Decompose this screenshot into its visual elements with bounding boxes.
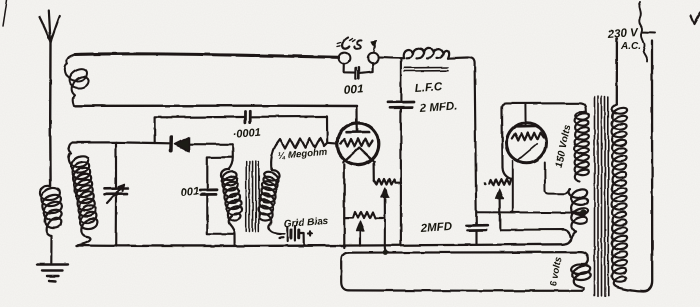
filament winding bottom lead (573, 232, 577, 237)
low frequency choke LFC (404, 48, 475, 71)
T1 secondary (258, 170, 280, 225)
V1 plate (347, 131, 370, 134)
svg-text:230 V: 230 V (606, 27, 639, 41)
power transformer T2 core (595, 96, 609, 296)
filter riser after LFC with 2MFD cap (467, 64, 487, 245)
R2 wiper arrow (381, 188, 389, 219)
junction dot rail to six volt loop (383, 250, 388, 255)
grid bypass riser (155, 117, 244, 143)
rheostat R3 (344, 212, 385, 219)
bottom return rail (77, 237, 573, 247)
svg-text:·0001: ·0001 (232, 127, 261, 141)
filament lower wire w2a (500, 230, 571, 237)
V1 grid zigzag (341, 139, 373, 147)
riser to hum rheostat R4 (502, 108, 511, 179)
T2 primary winding (612, 105, 627, 289)
T1 core (246, 161, 259, 232)
six volt loop (341, 252, 590, 291)
T1 secondary top lead to grid resistor (271, 145, 276, 170)
scan artifact top right (691, 13, 700, 24)
rheostat R2 (374, 179, 401, 185)
V1 filament leg right (373, 163, 375, 181)
variable capacitor C1 (104, 142, 128, 246)
svg-text:L.F.C: L.F.C (414, 81, 443, 95)
svg-text:001: 001 (343, 82, 364, 97)
svg-text:001: 001 (180, 185, 199, 199)
capacitor C2 plates (356, 67, 359, 78)
AC line left (616, 39, 618, 105)
T1 secondary bottom lead (269, 225, 284, 234)
triode V1 envelope (337, 123, 379, 165)
R4 wiper arrow (496, 189, 504, 230)
wire LS terminal to LFC (378, 56, 404, 59)
T2 rectifier filament winding (569, 189, 588, 231)
HV plate wire (502, 103, 586, 112)
V1 plate lead (356, 123, 358, 132)
antenna (40, 11, 60, 186)
wire R1 to grid (327, 142, 337, 145)
AC cord squiggle (639, 2, 655, 62)
capacitor C3 .0001 plates (245, 111, 250, 123)
capacitor C4 .001 branch (200, 157, 233, 234)
wire C3 to grid corner (252, 116, 328, 142)
V1 filament (343, 148, 375, 163)
T2 HV secondary winding (574, 112, 589, 181)
V2 plate (517, 125, 537, 128)
ground (38, 265, 69, 282)
V2 filament leg right (545, 163, 570, 194)
top tickler loop coil L3 (65, 54, 357, 123)
wire antenna coil to ground (50, 236, 52, 263)
scan artifact top left (3, 0, 7, 26)
svg-text:A.C.: A.C. (620, 41, 641, 52)
wire down to AF transformer primary (229, 144, 233, 169)
R4 terminal dot (483, 182, 486, 185)
B plus riser with filter cap (388, 58, 414, 245)
AF transformer T1 primary (220, 169, 242, 224)
antenna coupling coil L1 (40, 186, 62, 236)
T1 primary bottom lead (230, 225, 235, 246)
center tap junction dot (580, 210, 587, 217)
V2 filament leg left (512, 161, 514, 211)
rectifier V2 envelope (507, 123, 547, 163)
loud speaker terminal left (339, 53, 350, 64)
R3 wiper arrow (356, 222, 364, 246)
wire diode to transformer (189, 143, 233, 145)
wire R2 junction down to filament loop (385, 218, 390, 253)
label L S (338, 38, 377, 53)
wire tuned circuit top (72, 142, 169, 143)
svg-text:2MFD: 2MFD (419, 221, 452, 235)
AC line right (620, 40, 652, 292)
V2 filament diagonal (518, 144, 537, 160)
filament center-tap wire w1 (476, 211, 580, 213)
loud speaker terminal right (368, 53, 378, 63)
crystal diode D1 (171, 137, 189, 151)
tuned secondary coil L2 (69, 143, 98, 246)
grid resistor R1 quarter megohm (276, 138, 327, 149)
V2 plate lead (524, 104, 526, 126)
V2 grid zigzag (512, 133, 544, 141)
hum rheostat R4 (489, 179, 511, 185)
phone condenser C2 leads (344, 63, 373, 73)
V1 filament leg left (343, 164, 345, 247)
grid bias battery B1 (279, 226, 312, 246)
